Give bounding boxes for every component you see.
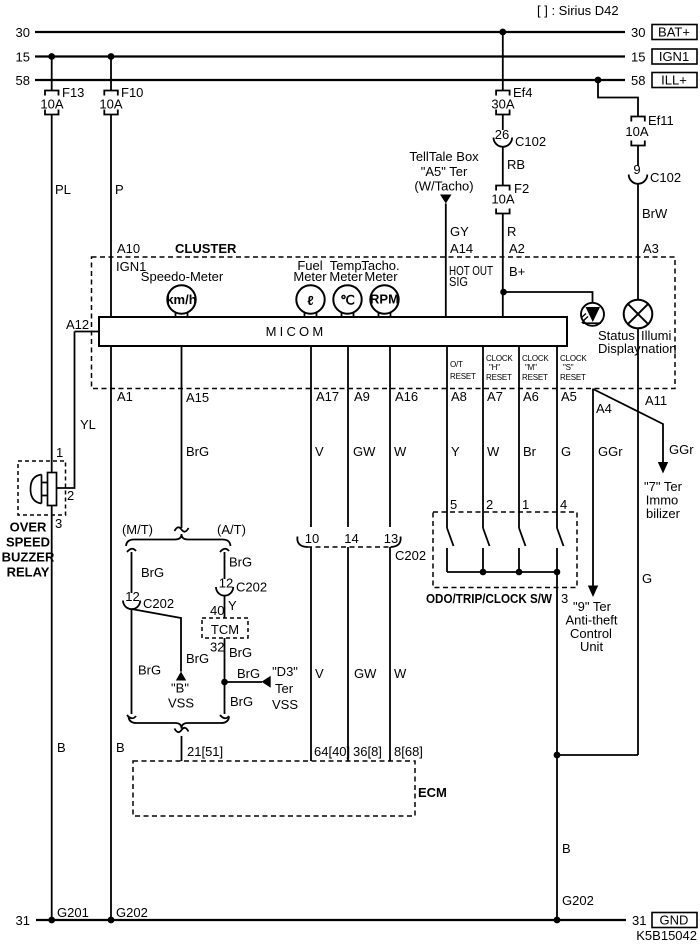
svg-text:A1: A1 xyxy=(117,389,133,404)
svg-text:"D3": "D3" xyxy=(272,664,298,679)
wire bus15 to fuse F10 xyxy=(110,57,112,91)
svg-text:G202: G202 xyxy=(116,905,148,920)
wire GW to ECM xyxy=(348,547,382,761)
terminal box ILL+ xyxy=(652,73,697,88)
svg-text:A8: A8 xyxy=(451,389,467,404)
svg-text:TCM: TCM xyxy=(211,622,239,637)
svg-text:O/T: O/T xyxy=(450,360,463,369)
reset label columns xyxy=(447,346,587,389)
svg-text:VSS: VSS xyxy=(168,696,194,711)
over speed buzzer relay xyxy=(2,445,75,580)
svg-text:"B": "B" xyxy=(171,681,189,696)
terminal box IGN1 xyxy=(652,49,697,64)
svg-text:Meter: Meter xyxy=(293,269,327,284)
wire G from A5 xyxy=(557,389,571,513)
arrow to 7 Ter immobilizer xyxy=(644,462,683,521)
wire PL xyxy=(52,115,71,473)
svg-text:8[68]: 8[68] xyxy=(394,744,423,759)
svg-text:RESET: RESET xyxy=(560,373,586,382)
svg-text:30: 30 xyxy=(631,25,645,40)
branch merge brace xyxy=(127,715,229,732)
svg-text:Display: Display xyxy=(598,341,641,356)
svg-text:RESET: RESET xyxy=(522,373,548,382)
fuse Ef11 10A xyxy=(625,113,673,146)
svg-text:GGr: GGr xyxy=(669,442,694,457)
connector C202 pin 12 M/T xyxy=(123,589,174,611)
branch split brace M/T A/T xyxy=(122,522,246,546)
svg-text:12: 12 xyxy=(219,576,233,591)
bus 58 xyxy=(16,73,646,88)
svg-text:1: 1 xyxy=(56,445,63,460)
svg-text:2: 2 xyxy=(67,488,74,503)
svg-text:31: 31 xyxy=(632,913,646,928)
svg-text:31: 31 xyxy=(16,913,30,928)
svg-text:CLOCK: CLOCK xyxy=(560,354,587,363)
svg-text:F10: F10 xyxy=(121,85,143,100)
switch pin 2 xyxy=(483,497,493,572)
pin A3 xyxy=(643,241,659,256)
connector C202 pins 10/14/13 xyxy=(297,531,426,563)
svg-text:A16: A16 xyxy=(395,389,418,404)
svg-text:15: 15 xyxy=(631,50,645,65)
svg-text:W: W xyxy=(394,444,407,459)
svg-text:A6: A6 xyxy=(523,389,539,404)
junction B+ xyxy=(500,289,507,296)
svg-text:A14: A14 xyxy=(450,241,473,256)
svg-text:"M": "M" xyxy=(525,363,537,372)
svg-text:10A: 10A xyxy=(40,97,63,112)
svg-text:C202: C202 xyxy=(143,596,174,611)
wire BrG M/T down xyxy=(132,609,162,714)
terminal box GND xyxy=(652,913,697,928)
wire bus58 to fuse Ef11 xyxy=(598,80,638,117)
svg-text:3: 3 xyxy=(55,516,62,531)
svg-text:Unit: Unit xyxy=(580,639,604,654)
svg-text:32: 32 xyxy=(210,640,224,655)
svg-text:B+: B+ xyxy=(509,264,525,279)
svg-text:GY: GY xyxy=(450,224,469,239)
speedometer gauge xyxy=(141,269,224,317)
pin labels row xyxy=(117,389,667,416)
svg-text:W: W xyxy=(487,444,500,459)
svg-text:C202: C202 xyxy=(236,580,267,595)
fuel meter gauge xyxy=(293,258,327,317)
ground G201 xyxy=(48,905,89,923)
wire GY xyxy=(446,204,469,318)
svg-text:B: B xyxy=(57,740,66,755)
svg-text:Ef4: Ef4 xyxy=(513,85,533,100)
svg-text:RPM: RPM xyxy=(370,292,399,307)
svg-text:OVER: OVER xyxy=(10,520,47,535)
bus 15 xyxy=(16,50,646,65)
wire GGr diagonal to immobilizer xyxy=(593,389,694,462)
svg-text:BrG: BrG xyxy=(229,555,252,570)
fuse F2 10A xyxy=(491,181,529,214)
pin A10 xyxy=(116,241,146,274)
VSS B arrow xyxy=(168,672,194,711)
junction G/B xyxy=(554,752,638,759)
temp meter gauge xyxy=(329,258,365,317)
svg-text:(M/T): (M/T) xyxy=(122,522,153,537)
svg-text:G201: G201 xyxy=(57,905,89,920)
wire B to G201 xyxy=(52,506,66,921)
ODO/TRIP/CLOCK switch box xyxy=(426,512,577,606)
svg-text:B: B xyxy=(116,740,125,755)
svg-text:10A: 10A xyxy=(625,124,648,139)
wire BrG M/T branch xyxy=(127,549,164,593)
svg-text:BUZZER: BUZZER xyxy=(2,550,55,565)
svg-text:BrG: BrG xyxy=(138,663,161,678)
svg-text:A7: A7 xyxy=(487,389,503,404)
wire bus30 to fuse Ef4 xyxy=(502,32,504,91)
svg-text:64[40]: 64[40] xyxy=(314,744,350,759)
bus 31 xyxy=(16,913,647,928)
fuse F10 10A xyxy=(99,85,143,115)
svg-text:"H": "H" xyxy=(489,363,500,372)
svg-text:40: 40 xyxy=(210,603,224,618)
svg-text:30A: 30A xyxy=(491,97,514,112)
svg-text:ℓ: ℓ xyxy=(307,293,313,308)
svg-text:RB: RB xyxy=(507,157,525,172)
svg-text:YL: YL xyxy=(80,417,96,432)
svg-text:GGr: GGr xyxy=(598,444,623,459)
svg-text:B: B xyxy=(562,841,571,856)
svg-text:RESET: RESET xyxy=(450,372,476,381)
VSS D3 arrow xyxy=(262,664,299,712)
wire V from A17 xyxy=(311,389,324,528)
part number xyxy=(636,928,697,943)
wire B+ to LED xyxy=(504,292,593,303)
svg-text:SIG: SIG xyxy=(449,274,468,289)
svg-text:10A: 10A xyxy=(491,192,514,207)
header note Sirius D42 xyxy=(537,3,619,18)
svg-text:36[8]: 36[8] xyxy=(353,744,382,759)
svg-text:(W/Tacho): (W/Tacho) xyxy=(414,179,473,194)
svg-text:Ter: Ter xyxy=(275,681,294,696)
svg-text:58: 58 xyxy=(631,73,645,88)
svg-text:"A5" Ter: "A5" Ter xyxy=(421,164,468,179)
junction D3 xyxy=(221,679,228,686)
svg-text:"S": "S" xyxy=(563,363,574,372)
svg-text:A11: A11 xyxy=(645,393,667,408)
connector C102 pin 26 xyxy=(494,127,547,149)
svg-text:(A/T): (A/T) xyxy=(217,522,246,537)
svg-text:CLUSTER: CLUSTER xyxy=(175,241,237,256)
svg-text:A15: A15 xyxy=(186,390,209,405)
wire BrG diagonal to B VSS xyxy=(132,609,210,672)
svg-text:GW: GW xyxy=(354,666,377,681)
wire RB xyxy=(503,147,525,186)
wire to ECM 21[51] xyxy=(182,736,224,761)
svg-text:BrW: BrW xyxy=(642,206,668,221)
wire V to ECM xyxy=(311,547,350,761)
pin A12 wire xyxy=(66,317,99,332)
wire B from A1 to G202 xyxy=(111,389,125,921)
svg-text:A3: A3 xyxy=(643,241,659,256)
wire Ef4 to C102 xyxy=(502,115,504,131)
switch pin 3 wire B xyxy=(557,572,571,920)
svg-text:V: V xyxy=(315,444,324,459)
svg-text:1: 1 xyxy=(522,497,529,512)
wire G from A11 xyxy=(638,328,652,755)
wire GGr from A4 xyxy=(593,389,623,586)
svg-text:km/h: km/h xyxy=(166,292,196,307)
wire GW from A9 xyxy=(348,389,376,528)
wire P xyxy=(111,115,124,318)
svg-text:58: 58 xyxy=(16,73,30,88)
svg-text:A12: A12 xyxy=(66,317,89,332)
svg-text:A2: A2 xyxy=(509,241,525,256)
svg-text:A9: A9 xyxy=(354,389,370,404)
svg-text:PL: PL xyxy=(55,182,71,197)
svg-text:Ef11: Ef11 xyxy=(648,113,674,128)
svg-text:A5: A5 xyxy=(561,389,577,404)
svg-text:W: W xyxy=(394,666,407,681)
junction bus15/F10 xyxy=(108,53,115,60)
svg-text:C102: C102 xyxy=(515,134,546,149)
svg-text:BrG: BrG xyxy=(237,666,260,681)
wire bus15 to fuse F13 xyxy=(51,57,53,91)
wire BrG pin 32 from TCM xyxy=(210,638,252,682)
svg-text:10: 10 xyxy=(305,531,319,546)
svg-text:F2: F2 xyxy=(514,181,529,196)
wire BrG A/T branch xyxy=(220,549,252,579)
svg-text:Speedo-Meter: Speedo-Meter xyxy=(141,269,224,284)
svg-text:TellTale Box: TellTale Box xyxy=(409,149,479,164)
svg-text:GND: GND xyxy=(660,913,689,928)
svg-text:3: 3 xyxy=(561,591,568,606)
switch common bus xyxy=(447,569,560,576)
TCM box xyxy=(202,618,248,638)
svg-text:ODO/TRIP/CLOCK S/W: ODO/TRIP/CLOCK S/W xyxy=(426,591,553,606)
junction bus15/F13 xyxy=(48,53,55,60)
ground G202 left xyxy=(108,905,148,923)
svg-text:GW: GW xyxy=(353,444,376,459)
svg-text:F13: F13 xyxy=(62,85,84,100)
svg-text:14: 14 xyxy=(344,531,358,546)
connector C202 pin 12 A/T xyxy=(216,576,267,596)
wire Ef11 to C102 xyxy=(637,146,639,167)
wire BrG to D3 VSS xyxy=(225,666,263,682)
wire BrW xyxy=(638,184,668,300)
fuse F13 10A xyxy=(40,85,84,115)
svg-text:BrG: BrG xyxy=(230,694,253,709)
svg-text:[ ] : Sirius D42: [ ] : Sirius D42 xyxy=(537,3,619,18)
svg-text:R: R xyxy=(507,224,516,239)
pin A14 xyxy=(449,241,493,289)
svg-text:VSS: VSS xyxy=(272,697,298,712)
svg-text:30: 30 xyxy=(16,25,30,40)
svg-text:C202: C202 xyxy=(395,548,426,563)
svg-text:ECM: ECM xyxy=(418,785,447,800)
junction bus30/Ef4 xyxy=(499,29,506,36)
bus 30 xyxy=(16,25,646,40)
wire BrG A/T down xyxy=(225,682,254,714)
svg-text:CLOCK: CLOCK xyxy=(522,354,549,363)
svg-text:G: G xyxy=(642,571,652,586)
arrow to 9 Ter anti-theft xyxy=(565,586,617,655)
ECM box xyxy=(133,761,447,816)
svg-text:10A: 10A xyxy=(99,97,122,112)
svg-text:ILL+: ILL+ xyxy=(661,73,687,88)
tacho meter gauge xyxy=(361,258,399,317)
svg-text:G: G xyxy=(561,444,571,459)
svg-text:MICOM: MICOM xyxy=(266,324,327,339)
svg-text:bilizer: bilizer xyxy=(646,506,681,521)
svg-text:9: 9 xyxy=(633,162,640,177)
switch pin 5 xyxy=(447,497,457,572)
svg-text:BrG: BrG xyxy=(186,651,209,666)
wire R xyxy=(503,214,517,318)
wire YL xyxy=(57,332,96,489)
terminal box BAT+ xyxy=(652,25,697,40)
svg-text:A10: A10 xyxy=(117,241,140,256)
svg-text:BrG: BrG xyxy=(186,444,209,459)
svg-text:26: 26 xyxy=(495,127,509,142)
svg-text:A4: A4 xyxy=(596,401,612,416)
svg-text:K5B15042: K5B15042 xyxy=(636,928,697,943)
svg-text:4: 4 xyxy=(560,497,567,512)
svg-text:RESET: RESET xyxy=(486,373,512,382)
svg-text:Meter: Meter xyxy=(364,269,398,284)
svg-text:Meter: Meter xyxy=(329,269,363,284)
switch pin 4 xyxy=(557,497,567,572)
pin stems below MICOM xyxy=(111,346,390,389)
svg-text:P: P xyxy=(115,182,124,197)
svg-text:G202: G202 xyxy=(562,893,594,908)
wire W from A16 xyxy=(390,389,407,528)
switch pin 1 xyxy=(519,497,529,572)
svg-text:V: V xyxy=(315,666,324,681)
svg-text:nation: nation xyxy=(641,341,676,356)
ground G202 right xyxy=(554,893,594,923)
MICOM U1 xyxy=(99,317,567,346)
pin A2 xyxy=(509,241,525,279)
fuse Ef4 30A xyxy=(491,85,532,115)
svg-text:2: 2 xyxy=(486,497,493,512)
svg-text:Br: Br xyxy=(523,444,537,459)
wire W to ECM xyxy=(390,547,423,761)
connector C102 pin 9 xyxy=(629,162,681,185)
svg-text:15: 15 xyxy=(16,50,30,65)
svg-text:IGN1: IGN1 xyxy=(659,49,689,64)
svg-text:BrG: BrG xyxy=(229,645,252,660)
wire W from A7 xyxy=(483,389,500,513)
cluster box xyxy=(92,241,676,389)
wire BrG from A15 xyxy=(182,389,210,529)
telltale box reference xyxy=(409,149,479,204)
wire Br from A6 xyxy=(519,389,537,513)
svg-text:SPEED: SPEED xyxy=(6,535,50,550)
LED status display xyxy=(581,303,641,356)
svg-text:RELAY: RELAY xyxy=(7,565,50,580)
svg-text:13: 13 xyxy=(384,531,398,546)
svg-text:12: 12 xyxy=(125,589,139,604)
svg-text:BAT+: BAT+ xyxy=(658,25,690,40)
svg-text:Y: Y xyxy=(451,444,460,459)
svg-text:Y: Y xyxy=(228,598,237,613)
lamp illumination xyxy=(624,300,677,356)
svg-text:21[51]: 21[51] xyxy=(187,744,223,759)
svg-text:C102: C102 xyxy=(650,170,681,185)
svg-text:CLOCK: CLOCK xyxy=(486,354,513,363)
wire Y pin 40 to TCM xyxy=(210,596,237,618)
wire Y from A8 xyxy=(447,389,460,513)
svg-text:℃: ℃ xyxy=(340,293,355,308)
svg-text:5: 5 xyxy=(450,497,457,512)
junction bus58/Ef11 xyxy=(595,77,602,84)
svg-text:A17: A17 xyxy=(316,389,339,404)
svg-text:BrG: BrG xyxy=(141,565,164,580)
